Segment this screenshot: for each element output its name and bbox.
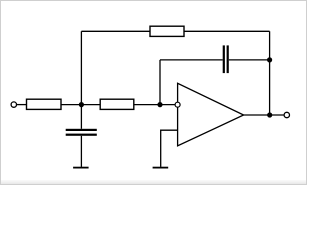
resistor R1 (27, 99, 62, 109)
wire C1 to ground (80, 136, 82, 167)
node feedback cap junction dot (267, 57, 272, 62)
resistor R2 (100, 99, 134, 109)
bottom shading band (1, 180, 306, 184)
wire R1 to R2 through node A (61, 104, 100, 106)
wire right vertical down to output (269, 31, 271, 115)
wire to capacitor C2 left (160, 59, 223, 61)
wire node B up (159, 60, 161, 105)
node B junction dot (157, 102, 162, 107)
op-amp U1 (175, 83, 244, 146)
wire top left to R3 (81, 30, 150, 32)
node A junction dot (79, 102, 84, 107)
wire non-inverting input (161, 130, 178, 167)
resistor R3 feedback (150, 26, 184, 36)
wire node A down to C1 (80, 105, 82, 129)
wire input to R1 (17, 104, 27, 106)
wire R2 to op-amp input (134, 104, 175, 106)
capacitor C2 (223, 45, 229, 73)
capacitor C1 (66, 129, 97, 136)
wire node A up to feedback (80, 31, 82, 104)
input terminal (11, 102, 16, 107)
output terminal (284, 112, 289, 117)
ground at op-amp (153, 167, 169, 169)
page border frame (0, 0, 307, 185)
wire R3 to right vertical (184, 30, 270, 32)
wire op-amp output (244, 114, 284, 116)
node output junction dot (267, 112, 272, 117)
wire capacitor C2 right (229, 59, 270, 61)
ground below C1 (73, 167, 89, 169)
